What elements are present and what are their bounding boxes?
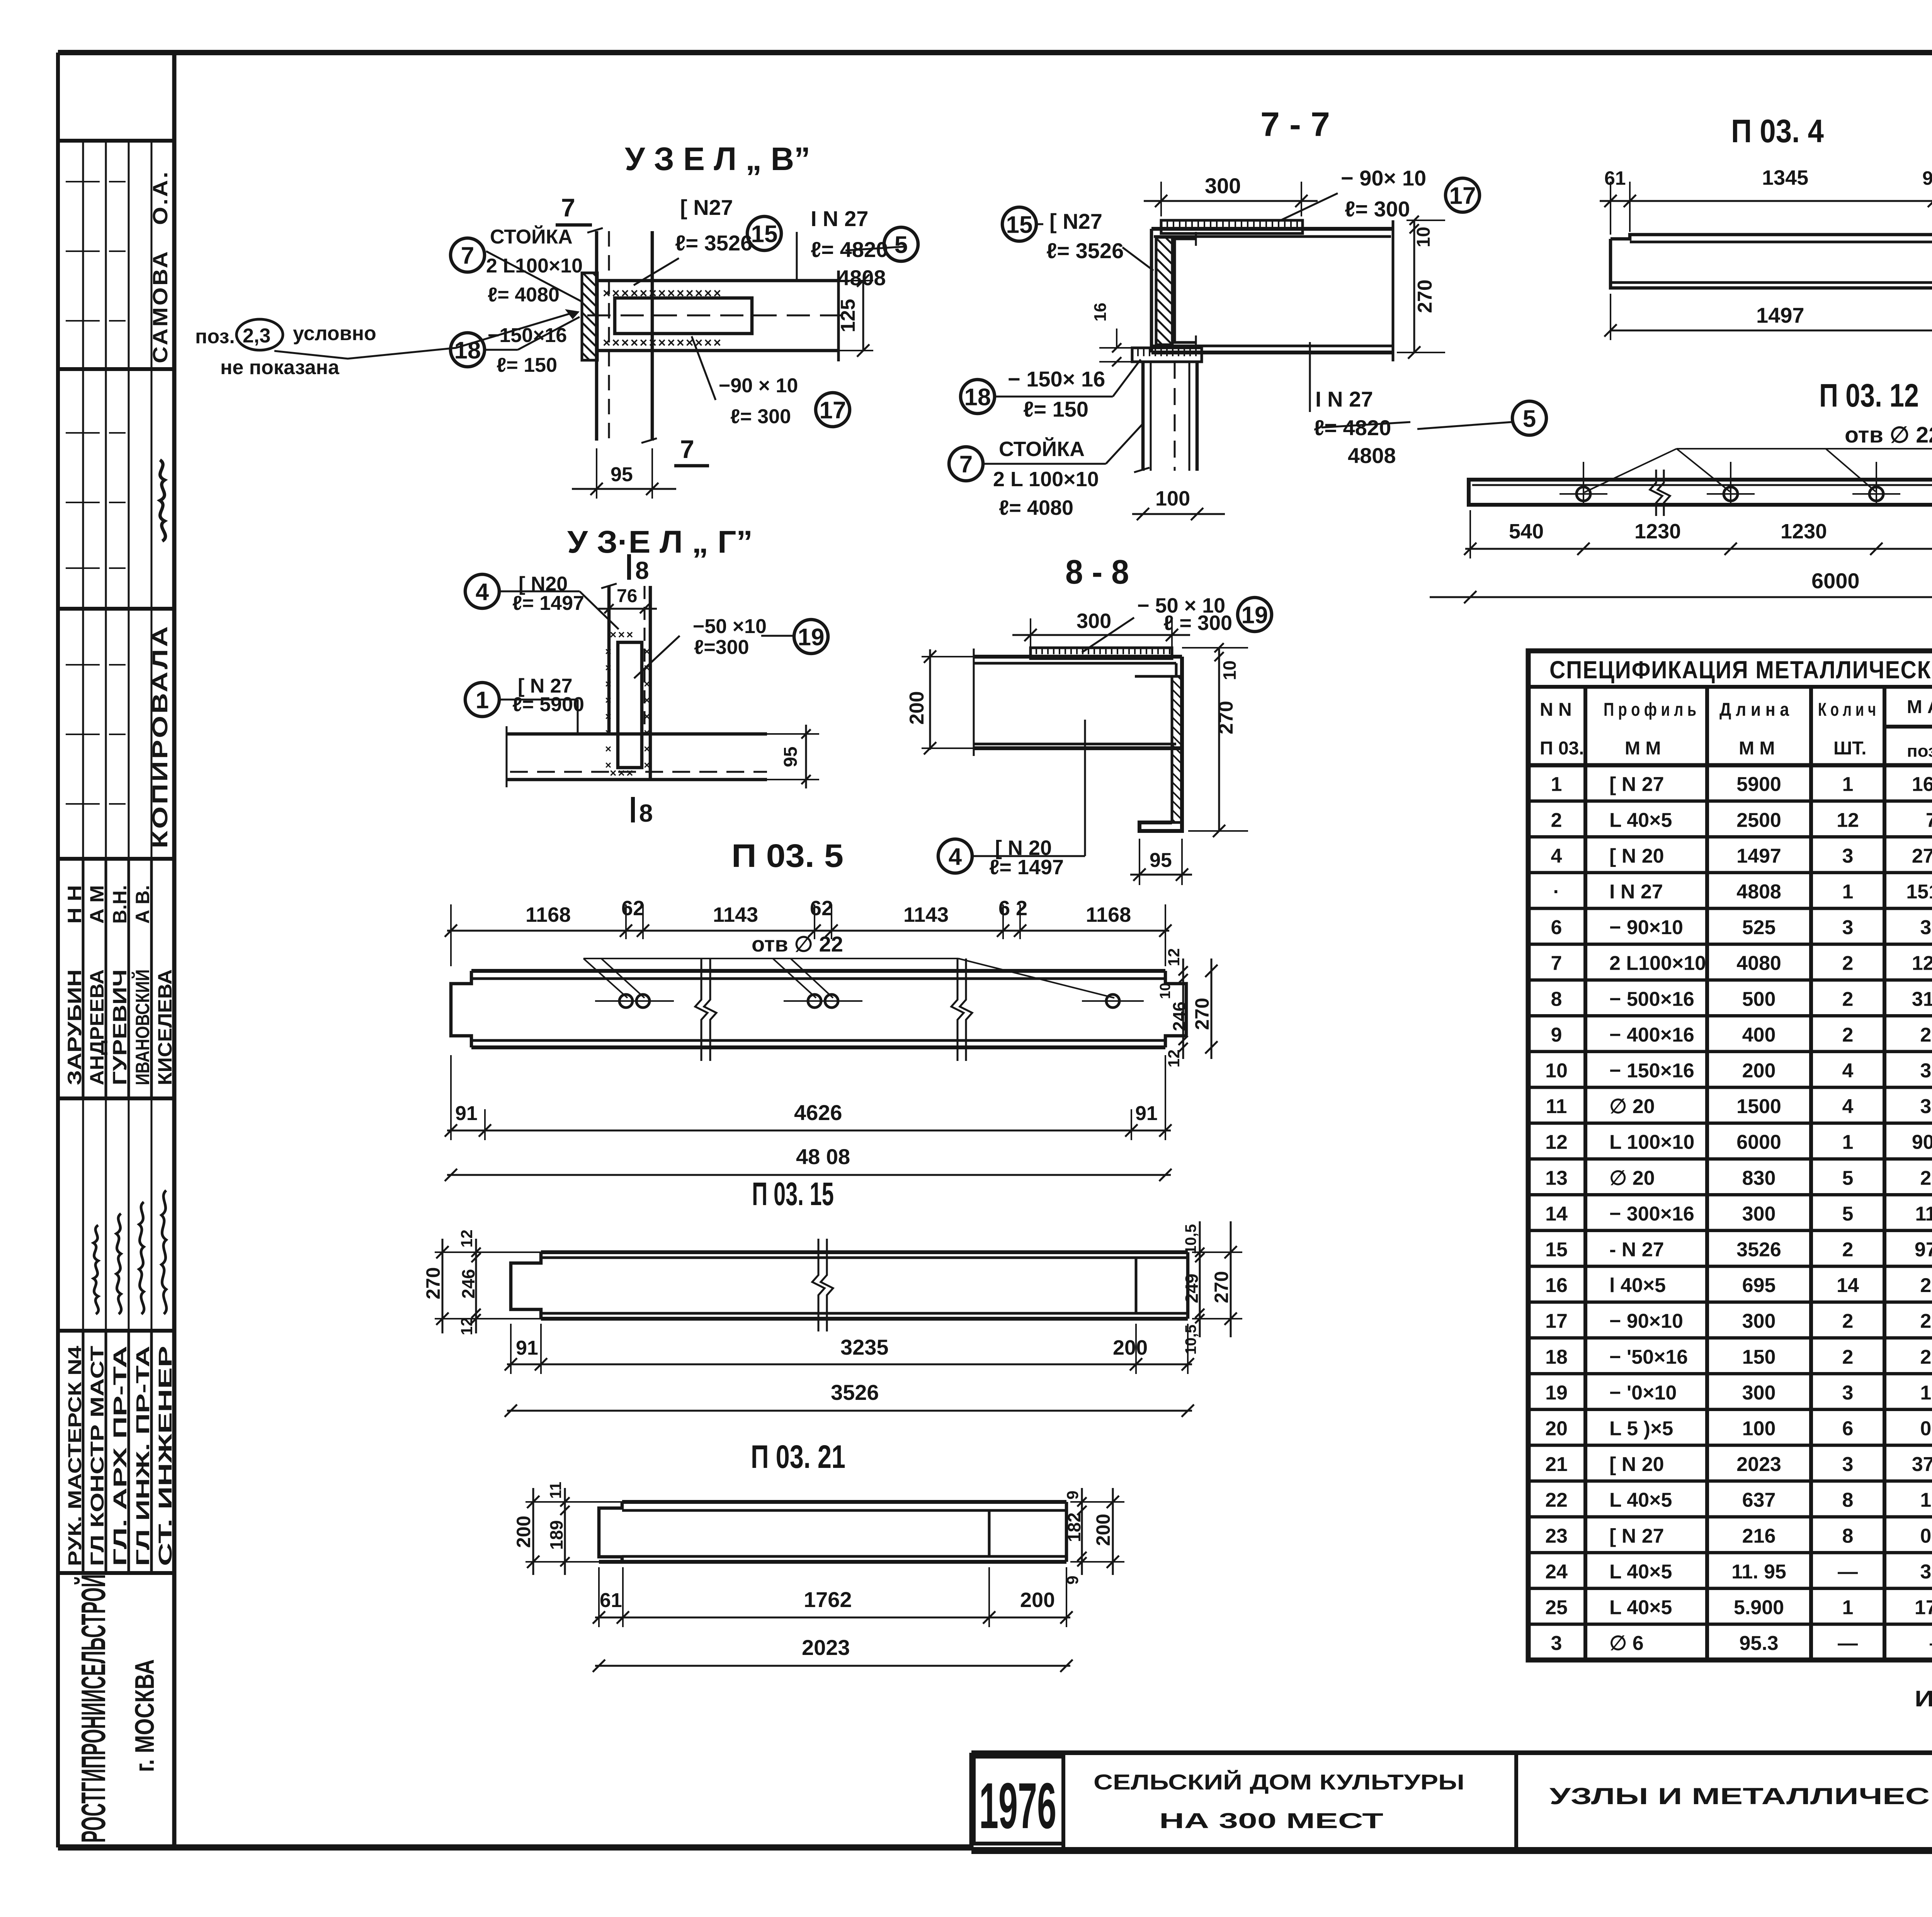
svg-text:5.900: 5.900 — [1734, 1596, 1784, 1619]
узел В dim 95 — [572, 448, 676, 499]
svg-text:СЕЛЬСКИЙ ДОМ КУЛЬТУРЫ: СЕЛЬСКИЙ ДОМ КУЛЬТУРЫ — [1094, 1770, 1464, 1794]
svg-text:8 - 8: 8 - 8 — [1065, 553, 1129, 591]
svg-text:22: 22 — [1545, 1489, 1568, 1512]
svg-text:17: 17 — [1449, 182, 1476, 209]
spec table header — [1528, 687, 1932, 1660]
svg-text:11: 11 — [546, 1482, 565, 1499]
svg-text:163. 4: 163. 4 — [1912, 773, 1932, 796]
svg-text:16: 16 — [1545, 1274, 1568, 1297]
svg-text:189: 189 — [546, 1520, 566, 1550]
svg-text:270: 270 — [422, 1267, 444, 1299]
7-7 column 2L100x10 below — [1134, 362, 1197, 472]
svg-text:ИТОГО: ИТОГО — [1915, 1686, 1932, 1711]
svg-text:10: 10 — [1157, 983, 1173, 999]
svg-text:2,3: 2,3 — [243, 325, 270, 347]
svg-text:− 90× 10: − 90× 10 — [1341, 166, 1426, 190]
svg-text:∅ 6: ∅ 6 — [1609, 1632, 1644, 1655]
svg-text:−90 × 10: −90 × 10 — [719, 375, 798, 397]
svg-text:91: 91 — [1135, 1102, 1158, 1125]
svg-text:35.7: 35.7 — [1920, 1561, 1932, 1583]
узел Г section mark 8 bottom — [633, 797, 653, 827]
узел В label C N27 poz 15 — [634, 195, 781, 285]
svg-text:2: 2 — [1842, 1238, 1854, 1261]
svg-text:95.3: 95.3 — [1739, 1632, 1778, 1655]
svg-text:100: 100 — [1155, 487, 1190, 510]
svg-text:4: 4 — [1551, 845, 1562, 867]
svg-text:Д л и н а: Д л и н а — [1719, 700, 1789, 720]
svg-text:91: 91 — [516, 1337, 538, 1359]
svg-text:условно: условно — [293, 322, 376, 345]
strip signatures column — [94, 1190, 167, 1314]
bottom title block frame — [971, 1753, 1932, 1847]
поз15 dims left 12 246 270 12 — [422, 1229, 545, 1335]
svg-text:91: 91 — [455, 1102, 478, 1125]
svg-text:2: 2 — [1842, 1024, 1854, 1046]
поз5 dims top row 1168 62 1143 62 1143 62 1168 — [445, 897, 1172, 966]
svg-text:21: 21 — [1545, 1453, 1568, 1476]
svg-text:300: 300 — [1742, 1310, 1776, 1333]
svg-text:7: 7 — [561, 193, 575, 222]
svg-text:18: 18 — [1545, 1346, 1568, 1368]
7-7 left channel C N27 hatched web — [1156, 232, 1196, 349]
svg-text:62: 62 — [810, 897, 833, 920]
svg-text:3.70: 3.70 — [1920, 1095, 1932, 1118]
8-8 right channel flange C shape — [1135, 657, 1182, 831]
svg-text:×: × — [644, 759, 650, 771]
svg-text:17: 17 — [1545, 1310, 1568, 1333]
svg-text:2: 2 — [1842, 1346, 1854, 1368]
svg-text:270: 270 — [1211, 1271, 1232, 1303]
svg-text:L 40×5: L 40×5 — [1609, 1489, 1672, 1512]
svg-text:ℓ = 300: ℓ = 300 — [1163, 611, 1232, 635]
поз21 dims right 9 182 200 9 — [1063, 1488, 1124, 1585]
title block year 1976 stencil — [974, 1757, 1063, 1844]
svg-text:[ N27: [ N27 — [680, 195, 733, 220]
svg-text:62: 62 — [621, 897, 645, 920]
svg-text:1: 1 — [1842, 880, 1854, 903]
svg-text:48 08: 48 08 — [796, 1144, 850, 1169]
svg-text:97.70: 97.70 — [1915, 1238, 1932, 1261]
svg-text:5: 5 — [1523, 405, 1536, 432]
svg-text:6: 6 — [1842, 1417, 1854, 1440]
spec table outer frame and title — [1528, 651, 1932, 1660]
svg-text:П 03. 15: П 03. 15 — [752, 1176, 834, 1212]
узел Г dim 76 — [598, 586, 657, 613]
svg-text:2.05: 2.05 — [1920, 1167, 1932, 1189]
svg-text:ℓ= 3526: ℓ= 3526 — [675, 231, 752, 255]
узел В label стойка poz 7 — [451, 225, 583, 306]
узел В label -150x16 poz 18 — [451, 317, 580, 376]
узел В label -90x10 poz 17 — [692, 336, 850, 428]
8-8 label C N20 poz 4 — [938, 720, 1085, 879]
поз21 beam elevation body — [599, 1502, 1066, 1562]
svg-text:4: 4 — [1842, 1059, 1854, 1082]
svg-text:×××××××××××××: ××××××××××××× — [603, 335, 723, 350]
svg-text:3235: 3235 — [840, 1335, 889, 1359]
поз15 dims right 10.5 249 270 10.5 — [1182, 1221, 1242, 1355]
svg-text:3.71: 3.71 — [1920, 916, 1932, 939]
svg-text:П 03. 4: П 03. 4 — [1731, 113, 1824, 149]
svg-text:I N 27: I N 27 — [811, 206, 868, 231]
svg-text:540: 540 — [1509, 520, 1544, 543]
svg-text:500: 500 — [1742, 988, 1776, 1010]
svg-text:×: × — [605, 662, 611, 674]
8-8 dim 200 left — [906, 649, 974, 754]
svg-text:2.83: 2.83 — [1920, 1346, 1932, 1368]
svg-text:ℓ= 4080: ℓ= 4080 — [488, 284, 560, 306]
svg-text:l 40×5: l 40×5 — [1609, 1274, 1666, 1297]
svg-text:[ N 27: [ N 27 — [1609, 773, 1664, 796]
svg-text:∅ 20: ∅ 20 — [1609, 1095, 1655, 1118]
svg-text:2 L 100×10: 2 L 100×10 — [993, 468, 1099, 491]
svg-text:8: 8 — [635, 557, 649, 584]
svg-text:L 40×5: L 40×5 — [1609, 1561, 1672, 1583]
svg-text:4: 4 — [949, 843, 962, 870]
svg-text:П 03. 12: П 03. 12 — [1819, 377, 1919, 414]
svg-text:г. МОСКВА: г. МОСКВА — [129, 1659, 160, 1772]
svg-text:[ N27: [ N27 — [1049, 209, 1102, 233]
svg-text:6: 6 — [1551, 916, 1562, 939]
svg-text:×: × — [605, 759, 611, 771]
svg-text:20.1: 20.1 — [1920, 1024, 1932, 1046]
7-7 label C N27 poz 15 — [1002, 207, 1153, 271]
svg-text:М М: М М — [1739, 738, 1775, 759]
svg-text:200: 200 — [1113, 1336, 1148, 1359]
svg-text:19: 19 — [1242, 602, 1268, 628]
поз5 break marks — [695, 958, 707, 1061]
svg-text:61: 61 — [1604, 167, 1626, 189]
svg-text:—: — — [1838, 1632, 1858, 1655]
7-7 label I N 27 poz 5 bottom — [1310, 342, 1546, 468]
svg-text:N N: N N — [1540, 700, 1572, 720]
svg-text:6000: 6000 — [1736, 1131, 1781, 1154]
svg-text:×××××××××××××: ××××××××××××× — [603, 286, 723, 301]
svg-text:11.30: 11.30 — [1915, 1203, 1932, 1225]
svg-text:5: 5 — [1842, 1203, 1854, 1225]
поз5 beam elevation body — [451, 971, 1186, 1047]
узел В beam outline I N27 — [587, 271, 850, 361]
svg-text:1762: 1762 — [804, 1587, 852, 1612]
svg-text:РОСТГИПРОНИИСЕЛЬСТРОЙ: РОСТГИПРОНИИСЕЛЬСТРОЙ — [74, 1574, 112, 1843]
svg-text:[ N 20: [ N 20 — [1609, 845, 1664, 867]
svg-text:12: 12 — [1545, 1131, 1568, 1154]
узел Г horizontal beam C N27 — [507, 726, 767, 787]
svg-text:525: 525 — [1742, 916, 1776, 939]
svg-text:270: 270 — [1191, 998, 1213, 1030]
svg-text:61: 61 — [600, 1589, 622, 1612]
svg-text:216: 216 — [1742, 1525, 1776, 1547]
svg-text:ℓ= 150: ℓ= 150 — [497, 354, 557, 376]
svg-text:3.77: 3.77 — [1920, 1059, 1932, 1082]
svg-text:10: 10 — [1413, 227, 1434, 247]
поз12 flat bar with holes — [1469, 480, 1932, 505]
svg-text:ℓ= 150: ℓ= 150 — [1023, 397, 1088, 421]
svg-text:1143: 1143 — [903, 903, 949, 926]
svg-text:2: 2 — [1551, 809, 1562, 831]
7-7 top plate -90x10 comb weld — [1161, 220, 1303, 233]
svg-text:2: 2 — [1842, 1310, 1854, 1333]
svg-text:12: 12 — [457, 1317, 476, 1335]
svg-text:19: 19 — [798, 624, 825, 650]
svg-text:3526: 3526 — [1736, 1238, 1781, 1261]
svg-text:КИСЕЛЕВА: КИСЕЛЕВА — [154, 969, 176, 1085]
svg-text:×: × — [605, 694, 611, 706]
поз15 dims bottom 91 3235 200 3526 — [505, 1324, 1194, 1417]
svg-text:125: 125 — [837, 299, 859, 332]
svg-text:246: 246 — [458, 1269, 478, 1299]
узел В label I N 27 poz 5 — [797, 206, 918, 290]
svg-text:Н Н: Н Н — [64, 885, 85, 924]
svg-text:10,5: 10,5 — [1182, 1325, 1199, 1355]
svg-text:10,5: 10,5 — [1182, 1224, 1199, 1254]
svg-text:23: 23 — [1545, 1525, 1568, 1547]
svg-text:3: 3 — [1551, 1632, 1562, 1655]
svg-text:830: 830 — [1742, 1167, 1776, 1189]
svg-text:1976: 1976 — [979, 1769, 1056, 1842]
svg-text:М М: М М — [1625, 738, 1661, 759]
svg-text:12: 12 — [1837, 809, 1859, 831]
svg-text:637: 637 — [1742, 1489, 1776, 1512]
svg-text:6 2: 6 2 — [998, 897, 1027, 920]
svg-text:95: 95 — [1150, 849, 1172, 872]
svg-text:300: 300 — [1742, 1382, 1776, 1404]
svg-text:СТОЙКА: СТОЙКА — [999, 437, 1085, 461]
svg-text:5900: 5900 — [1736, 773, 1781, 796]
узел Г label -50x10 poz 19 — [634, 615, 828, 678]
узел Г section mark 8 top — [629, 554, 649, 584]
svg-text:I N 27: I N 27 — [1315, 387, 1373, 411]
svg-text:×: × — [605, 678, 611, 690]
svg-text:7: 7 — [680, 435, 694, 463]
svg-text:×: × — [644, 678, 650, 690]
svg-text:14: 14 — [1837, 1274, 1859, 1297]
svg-text:8: 8 — [1842, 1489, 1854, 1512]
поз15 break mark — [812, 1239, 825, 1331]
8-8 dim 300 top — [1012, 609, 1190, 648]
svg-text:2.12: 2.12 — [1920, 1310, 1932, 1333]
svg-text:91: 91 — [1922, 167, 1932, 189]
7-7 beam rectangle I N27 — [1151, 220, 1393, 361]
svg-text:37. 22: 37. 22 — [1912, 1453, 1932, 1476]
svg-text:L 40×5: L 40×5 — [1609, 1596, 1672, 1619]
svg-text:31. 40: 31. 40 — [1912, 988, 1932, 1010]
svg-text:15: 15 — [1545, 1238, 1568, 1261]
svg-text:0.38: 0.38 — [1920, 1417, 1932, 1440]
svg-text:200: 200 — [513, 1516, 534, 1548]
7-7 base plate -150x16 comb weld — [1132, 348, 1202, 362]
svg-text:100: 100 — [1742, 1417, 1776, 1440]
поз4 dims top 61 1345 91 — [1600, 166, 1932, 235]
svg-text:5: 5 — [1842, 1167, 1854, 1189]
svg-text:2: 2 — [1842, 952, 1854, 975]
svg-text:3: 3 — [1842, 845, 1854, 867]
svg-text:L 100×10: L 100×10 — [1609, 1131, 1694, 1154]
svg-text:У З Е Л „ В”: У З Е Л „ В” — [625, 141, 810, 177]
svg-text:·: · — [1553, 880, 1560, 903]
svg-text:А В.: А В. — [132, 885, 153, 924]
svg-text:4: 4 — [476, 579, 489, 605]
svg-text:− 90×10: − 90×10 — [1609, 1310, 1683, 1333]
svg-text:200: 200 — [1742, 1059, 1776, 1082]
svg-text:7: 7 — [1551, 952, 1562, 975]
svg-text:20: 20 — [1545, 1417, 1568, 1440]
поз12 break marks — [1650, 470, 1662, 516]
svg-text:4808: 4808 — [1736, 880, 1781, 903]
svg-text:П 03. 21: П 03. 21 — [751, 1439, 845, 1475]
svg-text:×: × — [644, 645, 650, 657]
svg-text:12: 12 — [457, 1229, 476, 1248]
svg-text:− 90×10: − 90×10 — [1609, 916, 1683, 939]
svg-text:9: 9 — [1551, 1024, 1562, 1046]
svg-text:3: 3 — [1842, 916, 1854, 939]
svg-text:ИВАНОВСКИЙ: ИВАНОВСКИЙ — [131, 969, 153, 1085]
svg-text:ℓ= 1497: ℓ= 1497 — [512, 592, 584, 615]
svg-text:695: 695 — [1742, 1274, 1776, 1297]
svg-text:1345: 1345 — [1762, 166, 1808, 189]
svg-text:В.Н.: В.Н. — [109, 885, 131, 924]
поз12 dims bottom 540 1230... — [1464, 510, 1932, 558]
svg-text:− 300×16: − 300×16 — [1609, 1203, 1694, 1225]
svg-text:25: 25 — [1545, 1596, 1568, 1619]
svg-text:1.18: 1.18 — [1920, 1382, 1932, 1404]
svg-text:7.5: 7.5 — [1926, 809, 1932, 831]
поз4 dim 1497 bottom — [1604, 294, 1932, 340]
svg-text:13: 13 — [1545, 1167, 1568, 1189]
svg-text:270: 270 — [1215, 701, 1237, 734]
7-7 label стойка 2L100x10 poz 7 — [949, 424, 1143, 519]
svg-text:2 L100×10: 2 L100×10 — [1609, 952, 1706, 975]
svg-text:246: 246 — [1169, 1001, 1189, 1031]
svg-text:∅ 20: ∅ 20 — [1609, 1167, 1655, 1189]
svg-text:ГЛ КОНСТР МАСТ: ГЛ КОНСТР МАСТ — [87, 1346, 108, 1566]
svg-text:ℓ= 4080: ℓ= 4080 — [999, 496, 1073, 519]
svg-text:7 - 7: 7 - 7 — [1260, 105, 1330, 143]
svg-text:АНДРЕЕВА: АНДРЕЕВА — [86, 969, 108, 1085]
svg-text:10: 10 — [1545, 1059, 1568, 1082]
svg-text:12: 12 — [1165, 1049, 1183, 1067]
поз5 dims right 12 10 246 12 270 — [1157, 948, 1218, 1067]
svg-text:9: 9 — [1063, 1491, 1082, 1500]
svg-text:1: 1 — [1551, 773, 1562, 796]
svg-text:М А С С А: М А С С А — [1907, 697, 1932, 717]
svg-text:I N 27: I N 27 — [1609, 880, 1663, 903]
узел Г label C N27 poz 1 — [465, 675, 584, 733]
strip roles column — [65, 1346, 176, 1566]
поз4 channel elevation body — [1611, 235, 1932, 288]
svg-text:− 150×16: − 150×16 — [1609, 1059, 1694, 1082]
svg-text:− 150× 16: − 150× 16 — [1008, 367, 1105, 391]
svg-text:7: 7 — [959, 451, 973, 478]
svg-text:- N 27: - N 27 — [1609, 1238, 1664, 1261]
svg-text:15: 15 — [751, 221, 778, 247]
svg-text:×: × — [644, 710, 650, 722]
svg-text:СТ. ИНЖЕНЕР: СТ. ИНЖЕНЕР — [155, 1346, 176, 1566]
svg-text:6000: 6000 — [1811, 569, 1860, 593]
узел В dim 125 — [837, 274, 873, 357]
узел В end plate -150x16 hatched — [582, 273, 597, 360]
svg-text:ℓ= 1497: ℓ= 1497 — [989, 856, 1064, 879]
svg-text:РУК. МАСТЕРСК N4: РУК. МАСТЕРСК N4 — [65, 1346, 85, 1566]
svg-text:×××: ××× — [610, 767, 635, 780]
svg-text:18: 18 — [964, 384, 991, 410]
svg-text:—: — — [1930, 1632, 1932, 1655]
svg-text:П 03. 5: П 03. 5 — [731, 838, 844, 874]
svg-text:×: × — [644, 743, 650, 755]
7-7 dim 100 bottom — [1132, 487, 1225, 520]
svg-text:отв ∅ 22: отв ∅ 22 — [752, 932, 843, 956]
7-7 dim 10 and 270 right — [1397, 216, 1445, 359]
поз5 label отв Ф22 with leader lines — [583, 932, 1114, 998]
svg-text:К о л и ч: К о л и ч — [1818, 700, 1876, 720]
svg-text:200: 200 — [1092, 1514, 1114, 1546]
узел В inserted rod with weld hatch — [603, 286, 752, 350]
svg-text:76: 76 — [617, 586, 637, 606]
узел Г inner plate -50x10 with weld marks — [605, 628, 650, 780]
svg-text:15: 15 — [1006, 211, 1033, 238]
svg-text:11: 11 — [1546, 1095, 1567, 1118]
svg-text:8: 8 — [1842, 1525, 1854, 1547]
узел Г vertical channel C N20 plan — [601, 584, 650, 780]
svg-text:поз.: поз. — [195, 325, 235, 348]
svg-text:ℓ= 5900: ℓ= 5900 — [512, 693, 584, 716]
поз5 dims bottom 91 4626 91 4808 — [445, 1055, 1172, 1181]
8-8 dims right 10 270 — [1182, 643, 1248, 837]
svg-text:−50 ×10: −50 ×10 — [693, 615, 767, 638]
svg-text:1497: 1497 — [1736, 845, 1781, 867]
svg-text:У З·Е Л „ Г”: У З·Е Л „ Г” — [567, 524, 753, 560]
svg-text:1: 1 — [1842, 773, 1854, 796]
svg-text:10: 10 — [1219, 661, 1240, 680]
svg-text:14: 14 — [1545, 1203, 1568, 1225]
svg-text:400: 400 — [1742, 1024, 1776, 1046]
svg-text:200: 200 — [906, 691, 928, 725]
узел Г dim 95 right — [767, 725, 819, 788]
svg-text:17 52: 17 52 — [1915, 1596, 1932, 1619]
svg-text:А М: А М — [86, 885, 108, 924]
svg-text:КОПИРОВАЛА: КОПИРОВАЛА — [148, 624, 172, 848]
svg-text:×: × — [644, 694, 650, 706]
поз21 dims bottom 61 1762 200 2023 — [593, 1567, 1073, 1672]
svg-text:1230: 1230 — [1781, 520, 1827, 543]
svg-text:[ N 27: [ N 27 — [1609, 1525, 1664, 1547]
поз12 dim 6000 — [1430, 569, 1932, 603]
7-7 label -90x10 l=300 poz 17 — [1279, 166, 1480, 221]
svg-text:300: 300 — [1077, 609, 1111, 633]
8-8 label -50x10 l=300 poz 19 — [1082, 594, 1272, 652]
svg-text:4: 4 — [1842, 1095, 1854, 1118]
svg-text:90. 60: 90. 60 — [1912, 1131, 1932, 1154]
узел В section mark 7 left — [556, 193, 592, 225]
svg-text:2.06: 2.06 — [1920, 1274, 1932, 1297]
title block project name — [1094, 1770, 1464, 1833]
svg-text:17: 17 — [820, 397, 846, 424]
поз12 label отв Ф22 with leaders — [1584, 422, 1932, 492]
svg-text:3526: 3526 — [831, 1380, 879, 1405]
svg-text:ГЛ ИНЖ. ПР-ТА: ГЛ ИНЖ. ПР-ТА — [133, 1346, 153, 1566]
svg-text:2500: 2500 — [1736, 809, 1781, 831]
svg-text:3: 3 — [1842, 1382, 1854, 1404]
svg-text:—: — — [1838, 1561, 1858, 1583]
svg-text:ℓ=300: ℓ=300 — [694, 636, 749, 659]
svg-text:3: 3 — [1842, 1453, 1854, 1476]
узел Г label C N20 poz 4 — [465, 573, 619, 629]
svg-text:1500: 1500 — [1736, 1095, 1781, 1118]
svg-text:отв ∅ 22: отв ∅ 22 — [1845, 422, 1932, 448]
svg-text:×: × — [605, 710, 611, 722]
svg-text:− 500×16: − 500×16 — [1609, 988, 1694, 1010]
svg-text:300: 300 — [1205, 174, 1241, 198]
svg-text:249: 249 — [1182, 1273, 1202, 1303]
